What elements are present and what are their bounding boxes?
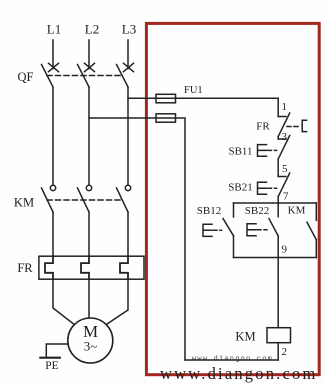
contactor KM linkage (dashed)	[47, 199, 122, 201]
relay FR release symbol	[302, 120, 306, 131]
svg-text:SB21: SB21	[228, 182, 252, 194]
svg-text:3: 3	[282, 131, 288, 143]
svg-text:KM: KM	[235, 330, 255, 344]
wire tap L2 to fuse FU1b	[89, 118, 185, 360]
fuse FU1b	[156, 114, 176, 122]
wire L3 drop	[127, 40, 129, 69]
pushbutton SB12 actuator dashes	[214, 229, 222, 231]
svg-text:SB22: SB22	[245, 205, 269, 217]
svg-text:L2: L2	[85, 22, 99, 37]
pushbutton SB12 (NO) bottom terminal	[233, 236, 235, 258]
wire tap L3 to fuse FU1a	[128, 97, 278, 99]
relay contact FR (NC) blade	[278, 113, 290, 137]
coil KM	[267, 328, 291, 343]
svg-text:7: 7	[283, 191, 289, 203]
pushbutton SB12 (NO) top terminal	[233, 203, 235, 217]
breaker QF pole 3 fixed-contact X	[124, 63, 134, 71]
wire phase A KM to FR	[52, 212, 54, 256]
wire node 7 segment	[277, 197, 279, 204]
ground bar PE	[40, 357, 59, 359]
pushbutton SB22 (NO) top terminal	[277, 203, 279, 217]
pushbutton SB21 actuator E	[258, 182, 267, 194]
pushbutton SB21 actuator dashes	[268, 187, 277, 189]
contact KM aux (NO) bottom terminal	[315, 240, 317, 258]
contactor KM pole 2 blade	[78, 188, 90, 212]
svg-text:SB12: SB12	[197, 205, 221, 217]
motor lead phase B	[88, 279, 90, 318]
svg-text:www.diangon.com: www.diangon.com	[160, 364, 318, 383]
pushbutton SB12 actuator E	[203, 224, 212, 236]
contact KM aux (NO) top terminal	[315, 203, 317, 220]
contactor KM pole 1 blade	[42, 188, 54, 212]
contactor KM pole 1 contact circle	[50, 185, 55, 190]
wire PE to motor	[46, 344, 68, 358]
svg-text:KM: KM	[14, 196, 34, 210]
motor lead phase A	[53, 279, 74, 324]
parallel branch bottom wire	[234, 257, 317, 259]
pushbutton SB22 actuator E	[247, 224, 256, 236]
svg-text:FU1: FU1	[184, 85, 203, 96]
motor M body	[68, 318, 113, 363]
pushbutton SB11 (NC) blade	[278, 136, 290, 160]
pushbutton SB22 (NO) bottom terminal	[277, 236, 279, 258]
svg-text:QF: QF	[18, 70, 34, 84]
pushbutton SB21 (NC) blade	[278, 173, 290, 197]
svg-text:PE: PE	[45, 360, 58, 372]
svg-text:L3: L3	[122, 22, 136, 37]
wire node 9 to coil	[277, 258, 279, 328]
wire L2 drop	[88, 40, 90, 69]
breaker QF pole 2 blade	[78, 65, 90, 88]
svg-text:www.diangon.com: www.diangon.com	[192, 356, 273, 364]
wire phase C KM to FR	[127, 212, 129, 256]
svg-text:3~: 3~	[84, 339, 98, 354]
svg-text:FR: FR	[17, 261, 33, 275]
svg-text:KM: KM	[288, 205, 306, 217]
return wire bottom	[185, 359, 278, 361]
svg-text:FR: FR	[256, 121, 270, 133]
svg-text:SB11: SB11	[228, 146, 252, 158]
relay contact FR (NC) seat tick	[278, 116, 286, 118]
parallel branch top wire	[234, 202, 317, 204]
contactor KM pole 3 blade	[117, 188, 129, 212]
motor lead phase C	[106, 279, 128, 324]
wire node 5 segment	[277, 159, 279, 177]
wire coil to node 2	[277, 343, 279, 360]
svg-text:9: 9	[282, 244, 288, 256]
pushbutton SB11 actuator dashes	[268, 149, 277, 151]
svg-text:1: 1	[282, 101, 288, 113]
wire phase B KM to FR	[88, 212, 90, 256]
wire node 3 segment	[277, 137, 279, 140]
breaker QF linkage (dashed)	[47, 75, 122, 77]
breaker QF pole 2 fixed-contact X	[85, 63, 95, 71]
fuse FU1a	[156, 94, 176, 103]
thermal relay FR heater 1	[45, 256, 53, 279]
contactor KM pole 3 contact circle	[125, 185, 130, 190]
breaker QF pole 3 blade	[117, 65, 129, 88]
svg-text:2: 2	[282, 346, 288, 358]
thermal relay FR body	[39, 256, 144, 279]
breaker QF pole 1 blade	[42, 65, 54, 88]
pushbutton SB12 (NO) blade	[223, 219, 234, 236]
pushbutton SB21 (NC) seat tick	[278, 176, 286, 178]
control rail down from fuse	[277, 98, 279, 116]
contact KM aux (NO) blade	[307, 222, 316, 240]
svg-text:L1: L1	[47, 22, 61, 37]
contactor KM pole 2 contact circle	[86, 185, 91, 190]
pushbutton SB11 (NC) seat tick	[278, 138, 286, 140]
wire L1 drop	[52, 40, 54, 69]
relay FR actuator dashes	[287, 126, 301, 128]
control-circuit boundary (red box)	[146, 23, 319, 374]
wire phase C QF to KM	[127, 87, 129, 184]
wire phase A QF to KM	[52, 87, 54, 184]
pushbutton SB11 actuator E	[258, 145, 267, 157]
pushbutton SB22 (NO) blade	[269, 219, 278, 236]
pushbutton SB22 actuator dashes	[258, 229, 268, 231]
breaker QF pole 1 fixed-contact X	[49, 63, 59, 71]
thermal relay FR heater 3	[120, 256, 128, 279]
svg-text:5: 5	[282, 163, 288, 175]
wire phase B QF to KM	[88, 87, 90, 184]
thermal relay FR heater 2	[81, 256, 89, 279]
